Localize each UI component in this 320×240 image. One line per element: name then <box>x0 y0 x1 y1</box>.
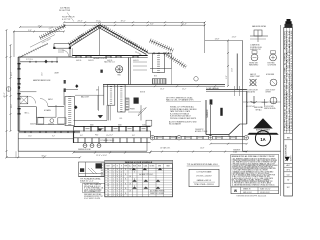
symbol row2 left <box>247 73 261 94</box>
svg-text:12'-4": 12'-4" <box>106 135 110 137</box>
kitchen cabinets <box>153 54 165 78</box>
svg-text:22'-8": 22'-8" <box>232 37 237 39</box>
window flags hall <box>99 115 104 118</box>
svg-text:TYP. 2x6 EXTERIOR STUD WALL U: TYP. 2x6 EXTERIOR STUD WALL U.N.O. <box>187 163 219 166</box>
svg-text:G1: G1 <box>107 183 109 185</box>
svg-text:6-02: 6-02 <box>287 174 290 176</box>
svg-text:TYPE: TYPE <box>124 166 128 168</box>
bath fixtures <box>38 118 66 124</box>
svg-text:SHT: SHT <box>287 187 290 189</box>
interior hline master suite <box>20 61 58 63</box>
dim texts middle <box>160 87 220 91</box>
svg-text:SL: SL <box>125 193 127 195</box>
svg-text:J1: J1 <box>108 188 110 190</box>
svg-text:SL: SL <box>125 183 127 185</box>
svg-text:NORTH: NORTH <box>290 156 292 161</box>
svg-text:6060: 6060 <box>90 125 94 127</box>
svg-text:23'-6": 23'-6" <box>77 21 82 23</box>
svg-text:HDR: HDR <box>138 166 141 168</box>
window flag glyphs hall <box>98 115 103 131</box>
svg-text:QTY: QTY <box>112 166 115 168</box>
svg-text:5040: 5040 <box>142 125 146 127</box>
dimension line bottom left <box>6 151 82 158</box>
svg-text:12'-6" x 10'-0": 12'-6" x 10'-0" <box>96 155 107 157</box>
balcony rail <box>75 86 104 111</box>
svg-text:VERIFY R.O. W/ MFR: VERIFY R.O. W/ MFR <box>150 193 164 195</box>
svg-text:EGR: EGR <box>133 166 136 168</box>
svg-text:OF 6: OF 6 <box>286 170 289 172</box>
svg-text:MASTER BEDROOM: MASTER BEDROOM <box>33 79 51 82</box>
roof right wing lower diagonal hatched <box>165 54 186 68</box>
svg-text:HOSE BIBB: HOSE BIBB <box>266 74 274 76</box>
wall left wing top <box>18 56 55 58</box>
main staircase <box>65 96 90 126</box>
svg-text:9'-6": 9'-6" <box>28 30 32 32</box>
svg-text:46'-0": 46'-0" <box>4 92 6 97</box>
svg-text:12'-6": 12'-6" <box>42 72 44 76</box>
keynote text top <box>59 7 75 22</box>
garage dimension bottom <box>210 143 248 154</box>
svg-text:LE: LE <box>129 183 131 185</box>
svg-text:6:12 TYP: 6:12 TYP <box>62 19 71 21</box>
svg-text:220V OUTLET: 220V OUTLET <box>266 90 276 92</box>
svg-text:6'-0": 6'-0" <box>80 135 83 137</box>
svg-text:LOT SQ FOOTAGE: LOT SQ FOOTAGE <box>197 170 213 173</box>
roof gable left rake hatched <box>69 25 101 47</box>
stairs upper pair <box>104 85 125 113</box>
svg-text:11'-2": 11'-2" <box>182 89 187 91</box>
svg-text:40: 40 <box>121 190 123 192</box>
door arc entry <box>62 50 69 57</box>
svg-text:9'-1" CLG: 9'-1" CLG <box>26 59 33 61</box>
svg-text:C1: C1 <box>107 174 109 176</box>
svg-text:THURSTON COUNTY WASHINGTON PH: THURSTON COUNTY WASHINGTON PH 360-555-01… <box>290 29 293 132</box>
svg-text:REV: REV <box>287 137 290 139</box>
wall bottom left windows <box>18 124 80 138</box>
svg-text:40: 40 <box>121 193 123 195</box>
svg-text:H: H <box>121 166 122 168</box>
svg-text:L1: L1 <box>107 193 109 195</box>
detail marker triangle <box>247 118 278 135</box>
svg-text:M. BATH: M. BATH <box>44 109 51 112</box>
pantry door diagonal <box>138 108 147 117</box>
square footage box <box>189 169 219 186</box>
footing detail notes block <box>83 183 105 200</box>
master suite hall wall <box>18 99 64 107</box>
svg-text:58'-0": 58'-0" <box>41 156 46 158</box>
small rooms near kitchen <box>128 105 141 120</box>
svg-text:8'-2": 8'-2" <box>150 24 154 26</box>
detail sketch top right <box>250 25 268 51</box>
svg-text:10'-6": 10'-6" <box>28 135 32 137</box>
roof ridge drop line <box>99 25 101 56</box>
svg-text:DRYER: DRYER <box>266 92 272 94</box>
title strip cap <box>285 19 293 28</box>
footing detail caption <box>80 178 101 183</box>
roof left wing ridge hatched <box>40 25 66 38</box>
svg-text:21'-0": 21'-0" <box>232 68 234 72</box>
title strip body <box>284 28 293 197</box>
svg-text:U.N.O. VERIFY ON SITE: U.N.O. VERIFY ON SITE <box>84 198 100 200</box>
svg-text:X: X <box>134 171 135 173</box>
svg-text:GREAT ROOM: GREAT ROOM <box>93 57 107 60</box>
svg-text:40: 40 <box>121 174 123 176</box>
svg-text:4040 SL: 4040 SL <box>76 60 82 62</box>
diamond marker left wall <box>18 86 21 89</box>
title strip lower cells <box>284 163 293 189</box>
symbol row3 anchor <box>246 96 257 108</box>
interior wall below stairs <box>74 105 108 120</box>
interior wall right of stairs <box>97 95 99 110</box>
footing detail drawing <box>79 162 105 177</box>
svg-text:9'-0": 9'-0" <box>226 75 228 79</box>
details divider line <box>243 101 281 103</box>
wall top great room <box>72 55 148 57</box>
title strip divisions <box>284 133 293 140</box>
symbol circle row1 left <box>249 51 259 67</box>
svg-text:5'-2": 5'-2" <box>110 135 113 137</box>
svg-text:LE: LE <box>129 190 131 192</box>
porch entry <box>53 44 72 57</box>
svg-text:JOB NO: 02-118: JOB NO: 02-118 <box>260 192 270 194</box>
wall below stairs double <box>108 105 110 120</box>
svg-text:40: 40 <box>121 179 123 181</box>
svg-text:9'-2": 9'-2" <box>52 135 55 137</box>
svg-text:16"x8" CONT FOOTING: 16"x8" CONT FOOTING <box>84 189 102 191</box>
title strip sheet id <box>284 144 292 161</box>
svg-text:PROVIDE COMBUST. AIR VENTS: PROVIDE COMBUST. AIR VENTS <box>170 117 197 120</box>
hall door jambs <box>64 80 66 92</box>
wall bottom middle band windows <box>74 125 151 144</box>
patio outline bottom left <box>18 133 147 151</box>
dimension line bottom right <box>150 147 248 153</box>
svg-text:4x8 HDR TYP U.N.O.: 4x8 HDR TYP U.N.O. <box>139 174 154 176</box>
svg-text:1A: 1A <box>260 137 265 142</box>
svg-text:40: 40 <box>121 195 123 197</box>
fireplace hatched block <box>153 79 167 85</box>
svg-text:11'-8": 11'-8" <box>11 104 13 109</box>
ceiling fan symbol <box>116 66 123 77</box>
wall note caption <box>187 163 220 166</box>
svg-text:DIRECT VENT: DIRECT VENT <box>250 76 260 78</box>
svg-text:5040 SL: 5040 SL <box>30 124 36 126</box>
svg-text:14'-8": 14'-8" <box>215 39 220 41</box>
svg-text:GARAGE: GARAGE <box>206 109 209 118</box>
note sheetrock garage <box>166 97 201 102</box>
svg-text:WALLS & CEIL. OF GARAGE (TYP): WALLS & CEIL. OF GARAGE (TYP) <box>166 99 194 102</box>
svg-text:5040 FX: 5040 FX <box>88 60 94 62</box>
svg-text:NOOK: NOOK <box>140 92 146 94</box>
svg-text:MFR: MFR <box>158 166 161 168</box>
svg-text:21'-4": 21'-4" <box>181 24 186 26</box>
symbol row2 right <box>266 74 277 94</box>
dimension line bottom middle <box>73 152 152 158</box>
window labels below top wall <box>76 60 139 62</box>
svg-text:6060: 6060 <box>118 125 122 127</box>
detail marker circle 1A <box>255 131 270 146</box>
dark blob column <box>100 70 102 73</box>
roof left wing eave diagonal <box>20 35 55 57</box>
svg-text:B1: B1 <box>107 171 109 173</box>
svg-text:40: 40 <box>121 183 123 185</box>
title strip rotated text <box>285 29 294 132</box>
svg-text:SMOKE DET.: SMOKE DET. <box>249 63 259 65</box>
closet with X <box>20 96 28 104</box>
svg-text:11'-0": 11'-0" <box>96 21 101 23</box>
svg-text:40: 40 <box>121 171 123 173</box>
diamond marker entry <box>44 60 47 64</box>
shake label above marker <box>254 106 263 111</box>
svg-text:16' GAR. DR.: 16' GAR. DR. <box>160 147 171 150</box>
svg-text:H1: H1 <box>107 186 109 188</box>
wall left exterior <box>17 57 20 131</box>
window schedule table <box>0 0 173 197</box>
svg-text:W/ GUTTER: W/ GUTTER <box>59 10 71 12</box>
roof right eave line <box>148 52 172 84</box>
svg-text:HOLD DOWN: HOLD DOWN <box>264 106 273 108</box>
svg-text:F1: F1 <box>107 181 109 183</box>
note block center right <box>170 106 197 121</box>
svg-text:D1: D1 <box>107 176 109 178</box>
svg-text:K1: K1 <box>107 190 109 192</box>
svg-text:40: 40 <box>121 181 123 183</box>
wall bottom right windows <box>150 131 248 140</box>
svg-text:NOTES: NOTES <box>150 166 155 168</box>
deck posts circles <box>83 144 101 148</box>
garage door dark marker <box>220 108 222 116</box>
svg-text:40: 40 <box>121 188 123 190</box>
svg-text:40: 40 <box>121 186 123 188</box>
svg-text:14'-2": 14'-2" <box>11 71 13 76</box>
svg-text:LNDRY: LNDRY <box>54 73 59 75</box>
svg-text:GLZ: GLZ <box>129 166 132 168</box>
ref box <box>146 120 152 126</box>
svg-text:COVERED DECK: COVERED DECK <box>100 140 115 142</box>
deck edge lines <box>74 135 151 143</box>
cross symbol <box>262 99 268 106</box>
svg-text:W/ 2x6 NAILER: W/ 2x6 NAILER <box>169 123 182 126</box>
garage walls <box>206 54 247 137</box>
dimension line left vertical <box>4 25 65 158</box>
interior walls laundry <box>20 90 78 105</box>
symbol circle row1 right <box>268 51 277 67</box>
svg-text:LE: LE <box>129 176 131 178</box>
svg-text:SL: SL <box>125 169 127 171</box>
pantry shelves <box>133 62 147 70</box>
general notes block <box>231 154 279 187</box>
interior wall long horizontal <box>103 85 225 88</box>
svg-text:SL: SL <box>125 174 127 176</box>
svg-text:SL: SL <box>125 188 127 190</box>
svg-text:1 FLOOR = 2,345 S.F.: 1 FLOOR = 2,345 S.F. <box>196 176 212 178</box>
svg-text:8'-6": 8'-6" <box>132 135 135 137</box>
symbol row3 circle <box>264 97 277 110</box>
roof right wing upper diagonal hatched <box>150 41 173 51</box>
stair dark rail band <box>125 98 129 110</box>
svg-text:40: 40 <box>121 176 123 178</box>
svg-text:40: 40 <box>121 169 123 171</box>
master bath walls <box>36 98 64 125</box>
svg-text:17'-2": 17'-2" <box>38 25 43 27</box>
roof eave line left <box>54 44 70 49</box>
svg-text:10'-8": 10'-8" <box>200 148 205 150</box>
svg-text:BALCONY: BALCONY <box>81 96 90 99</box>
svg-text:LE: LE <box>129 169 131 171</box>
details column border <box>243 25 281 196</box>
interior wall center vertical <box>129 58 131 85</box>
svg-text:GARAGE: GARAGE <box>233 149 241 152</box>
svg-text:SL: SL <box>125 179 127 181</box>
diamond marker stairs <box>74 105 77 109</box>
roof gable right rake hatched <box>98 25 148 57</box>
title signature box <box>231 187 279 194</box>
svg-text:19'-0": 19'-0" <box>120 21 125 23</box>
svg-text:2-CAR GARAGE: 2-CAR GARAGE <box>206 87 220 90</box>
svg-text:50 CFM MIN: 50 CFM MIN <box>268 65 277 67</box>
svg-text:DINING ROOM: DINING ROOM <box>78 149 91 151</box>
dimension line right vertical <box>205 22 243 87</box>
svg-text:FLOOR OUTLET: FLOOR OUTLET <box>247 90 259 92</box>
svg-text:M1: M1 <box>107 195 109 197</box>
dimension line top <box>63 21 206 27</box>
island circle <box>194 77 198 81</box>
svg-text:W.I.C.: W.I.C. <box>25 113 30 115</box>
furnace dark square <box>134 98 139 104</box>
quarter bath door arc <box>28 96 35 103</box>
note line below <box>169 120 197 125</box>
water heater dark bar <box>210 99 213 104</box>
diamond marker hall <box>75 84 78 88</box>
svg-text:E1: E1 <box>107 179 109 181</box>
svg-text:13'-4": 13'-4" <box>160 89 165 91</box>
